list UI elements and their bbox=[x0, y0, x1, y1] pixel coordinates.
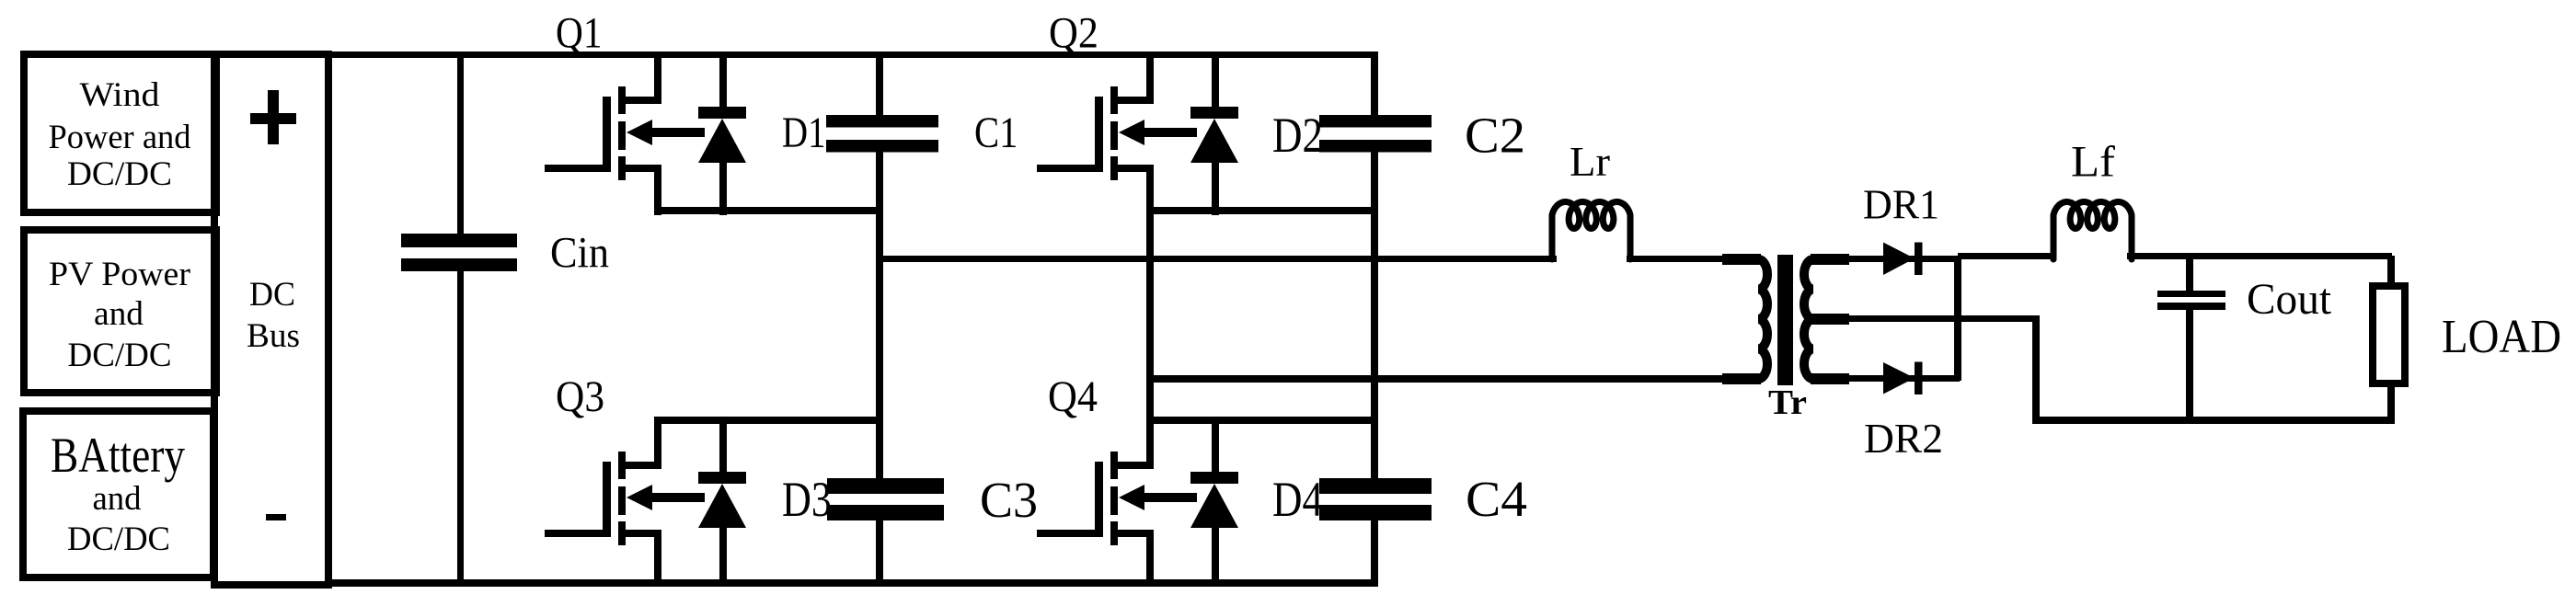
svg-text:C3: C3 bbox=[980, 472, 1038, 528]
svg-text:Bus: Bus bbox=[247, 317, 300, 355]
svg-text:C4: C4 bbox=[1466, 471, 1527, 527]
svg-text:D4: D4 bbox=[1272, 472, 1323, 527]
svg-text:DC: DC bbox=[249, 276, 295, 314]
svg-text:DC/DC: DC/DC bbox=[68, 337, 172, 374]
svg-text:DC/DC: DC/DC bbox=[67, 520, 170, 558]
svg-text:D3: D3 bbox=[782, 472, 832, 527]
svg-text:D2: D2 bbox=[1272, 108, 1323, 163]
svg-text:PV Power: PV Power bbox=[49, 256, 191, 293]
svg-text:BAttery: BAttery bbox=[51, 428, 185, 483]
svg-text:Cout: Cout bbox=[2247, 275, 2332, 324]
svg-text:DC/DC: DC/DC bbox=[67, 155, 172, 193]
svg-text:Q2: Q2 bbox=[1049, 9, 1098, 58]
svg-text:Q1: Q1 bbox=[556, 9, 603, 58]
svg-text:C2: C2 bbox=[1465, 108, 1525, 164]
svg-text:Q3: Q3 bbox=[556, 372, 604, 421]
svg-text:and: and bbox=[93, 480, 142, 518]
svg-text:Lf: Lf bbox=[2071, 138, 2115, 187]
svg-text:D1: D1 bbox=[782, 109, 826, 157]
svg-text:Wind: Wind bbox=[80, 76, 160, 114]
svg-text:and: and bbox=[94, 295, 144, 333]
svg-text:Q4: Q4 bbox=[1048, 372, 1098, 421]
svg-text:Cin: Cin bbox=[550, 229, 609, 278]
svg-text:DR2: DR2 bbox=[1864, 415, 1943, 462]
svg-text:Lr: Lr bbox=[1570, 138, 1610, 185]
svg-text:DR1: DR1 bbox=[1863, 181, 1939, 228]
svg-text:Tr: Tr bbox=[1768, 383, 1807, 422]
svg-text:C1: C1 bbox=[974, 109, 1018, 157]
svg-text:Power and: Power and bbox=[49, 119, 191, 156]
svg-text:LOAD: LOAD bbox=[2442, 311, 2561, 363]
